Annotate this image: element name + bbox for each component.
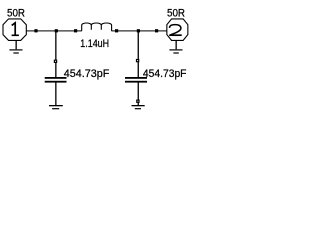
svg-text:454.73pF: 454.73pF xyxy=(64,68,110,80)
svg-text:50R: 50R xyxy=(7,8,25,20)
svg-text:1.14uH: 1.14uH xyxy=(80,38,109,50)
svg-text:454.73pF: 454.73pF xyxy=(143,68,187,80)
svg-text:50R: 50R xyxy=(167,7,185,19)
